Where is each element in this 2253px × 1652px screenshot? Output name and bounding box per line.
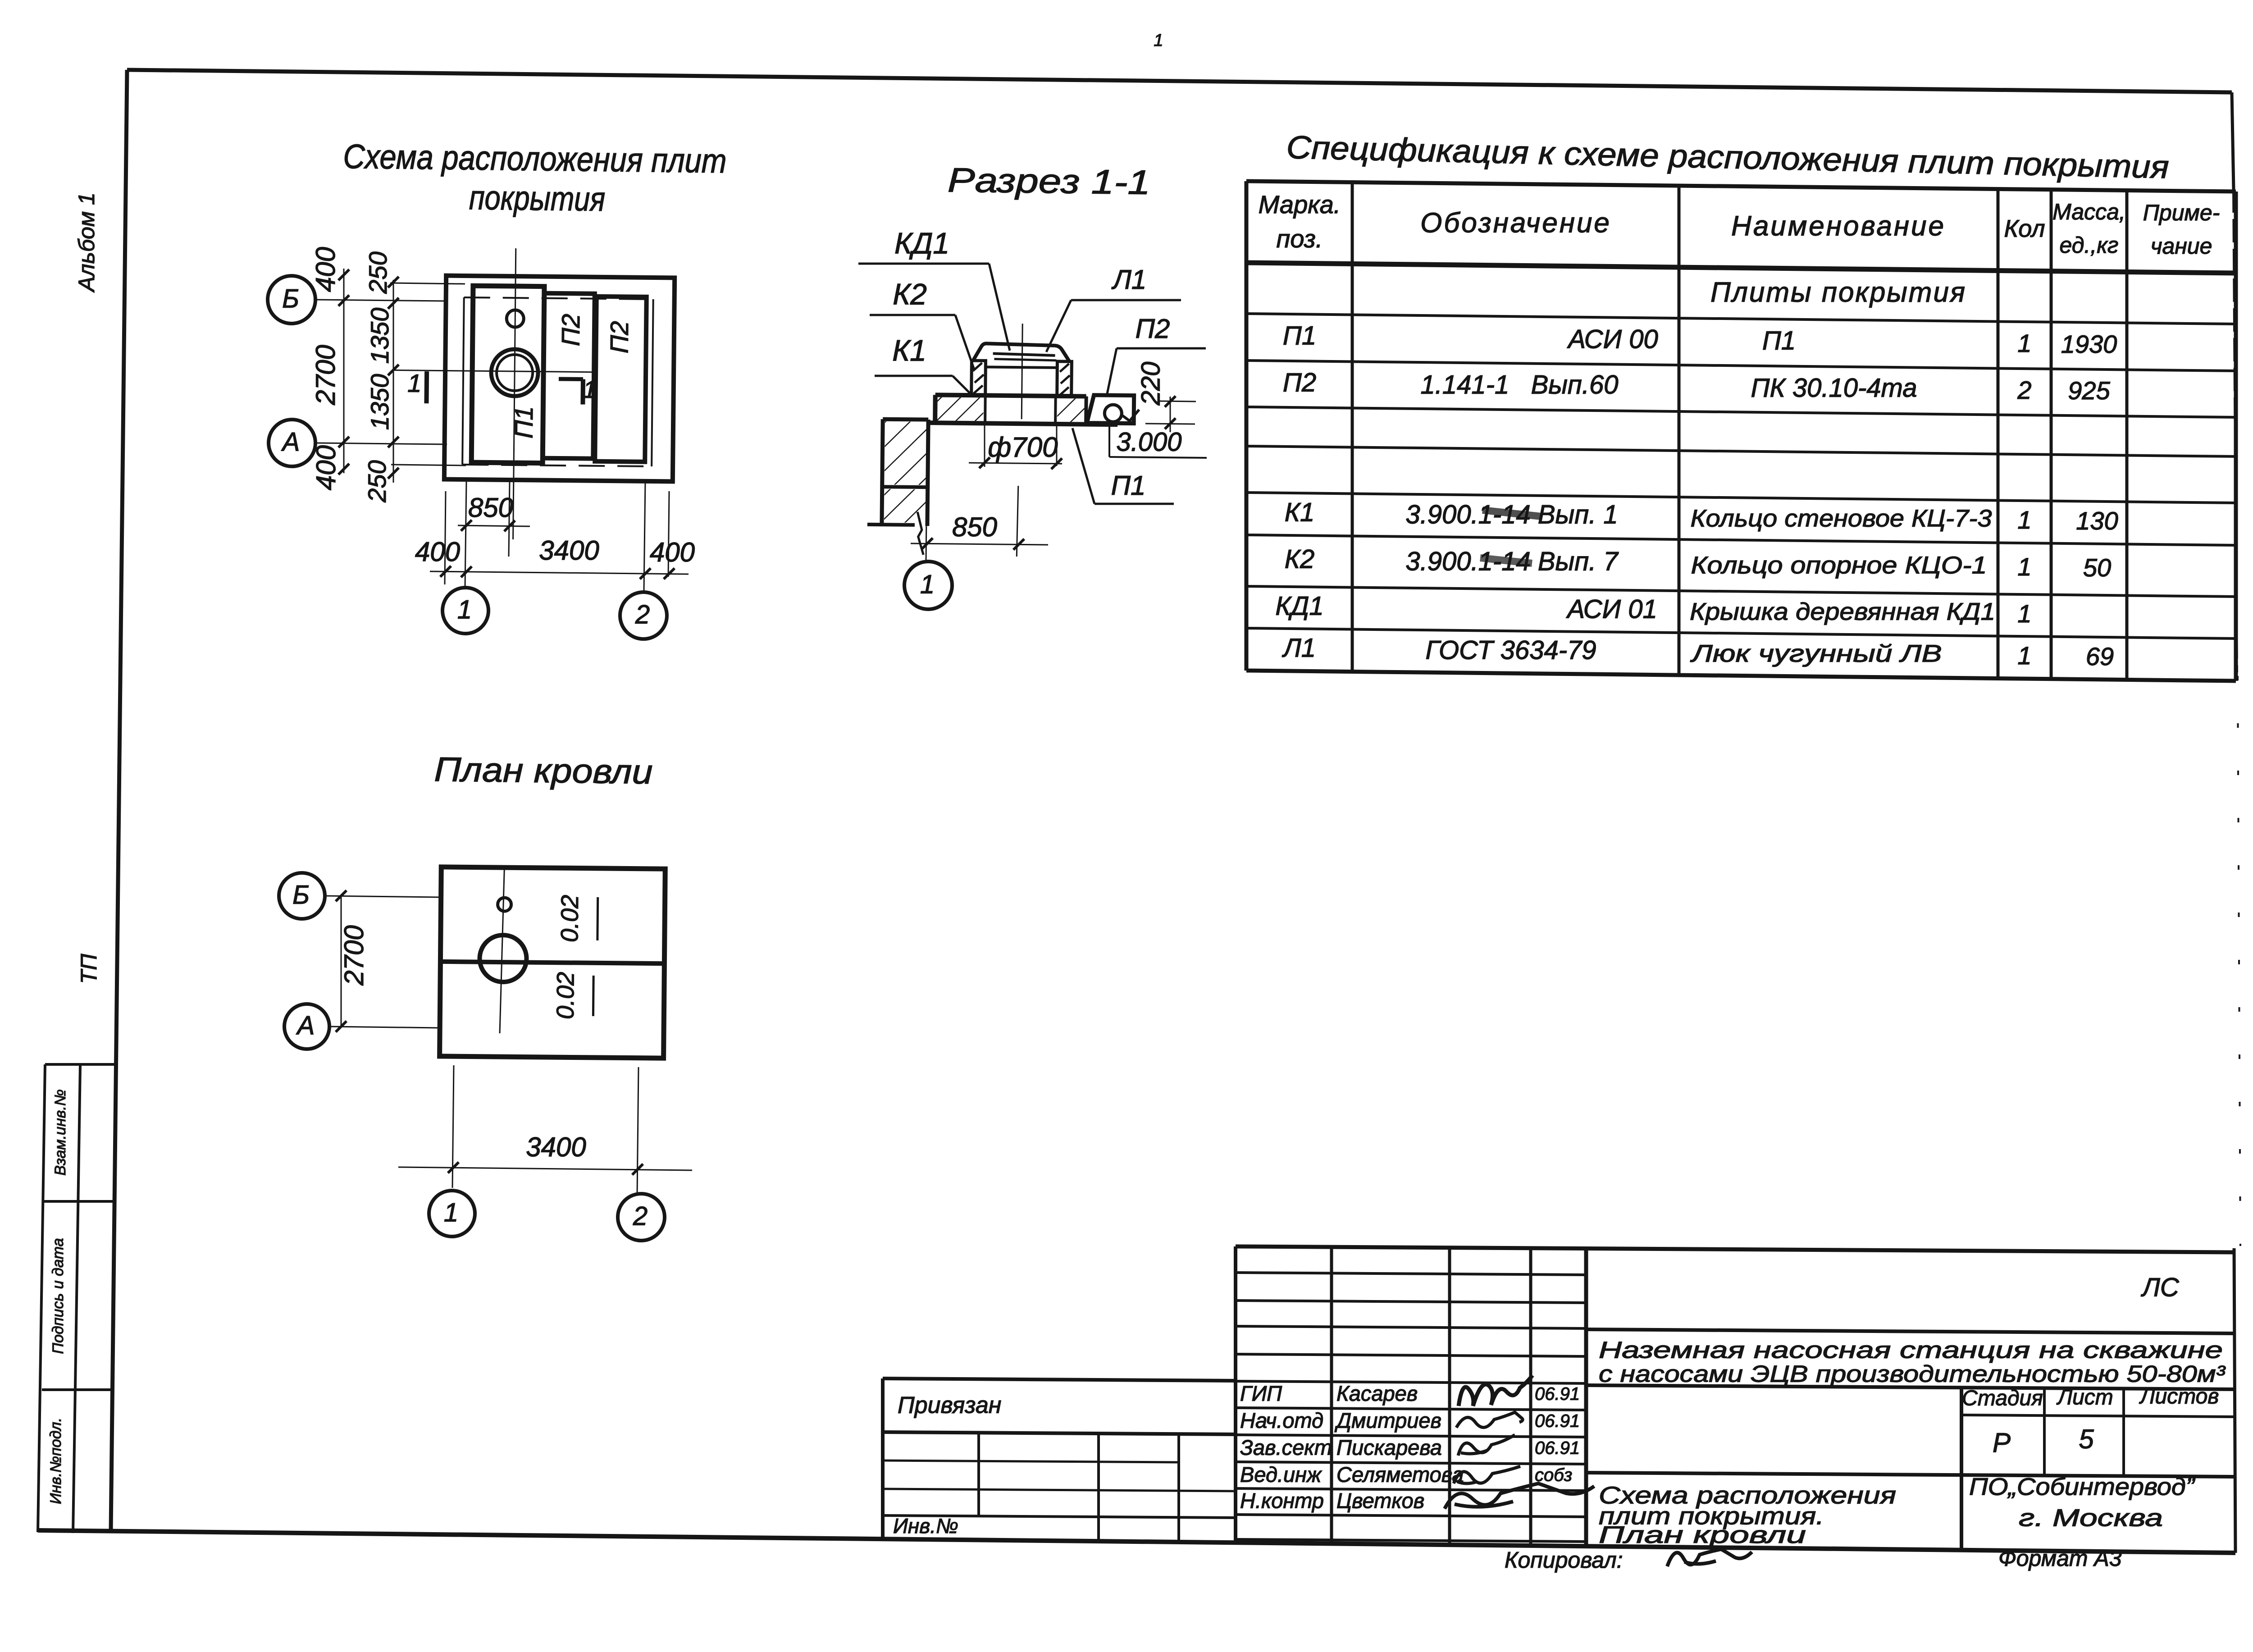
svg-text:Пискарева: Пискарева xyxy=(1336,1435,1442,1459)
svg-text:Марка.: Марка. xyxy=(1259,190,1341,219)
svg-text:Схема расположения плит: Схема расположения плит xyxy=(343,137,727,180)
svg-text:3400: 3400 xyxy=(526,1132,586,1162)
title block horizontal lines (right part) xyxy=(1586,1329,2235,1333)
svg-text:0.02: 0.02 xyxy=(556,895,584,943)
svg-text:П2: П2 xyxy=(1136,314,1170,344)
svg-text:ГОСТ 3634-79: ГОСТ 3634-79 xyxy=(1425,635,1596,665)
svg-text:400: 400 xyxy=(311,445,341,490)
svg-text:ПО„Собинтервод”: ПО„Собинтервод” xyxy=(1969,1473,2195,1500)
svg-text:2: 2 xyxy=(633,1201,648,1231)
svg-text:Приме-: Приме- xyxy=(2143,200,2220,225)
svg-text:2700: 2700 xyxy=(310,345,341,405)
section cut mark 1 (left) xyxy=(424,371,429,403)
svg-text:Формат А3: Формат А3 xyxy=(1998,1546,2122,1571)
svg-text:Л1: Л1 xyxy=(1282,633,1316,662)
slab П2 (second) xyxy=(595,297,647,462)
svg-text:Люк чугунный ЛВ: Люк чугунный ЛВ xyxy=(1690,640,1942,667)
svg-text:Альбом 1: Альбом 1 xyxy=(74,192,99,293)
svg-text:Наименование: Наименование xyxy=(1731,210,1946,242)
svg-text:1: 1 xyxy=(2017,641,2031,670)
svg-text:1: 1 xyxy=(407,369,422,397)
roof ridge line xyxy=(440,962,664,963)
svg-text:850: 850 xyxy=(468,493,513,523)
svg-text:1: 1 xyxy=(457,595,472,624)
svg-text:69: 69 xyxy=(2086,642,2114,671)
fold mark dashed line xyxy=(2238,676,2240,1246)
grid line 2 xyxy=(644,481,645,591)
svg-text:К2: К2 xyxy=(1285,544,1314,574)
dim 220 xyxy=(1158,401,1196,402)
signatures (scribbles) xyxy=(1459,1375,1532,1406)
svg-text:50: 50 xyxy=(2083,553,2111,582)
svg-text:покрытия: покрытия xyxy=(469,178,606,219)
svg-text:0.02: 0.02 xyxy=(552,972,579,1019)
svg-text:ГИП: ГИП xyxy=(1240,1381,1282,1405)
wooden cover КД1 xyxy=(973,343,1069,361)
svg-text:1: 1 xyxy=(583,376,597,403)
svg-text:2: 2 xyxy=(635,600,650,629)
svg-text:3.000: 3.000 xyxy=(1116,427,1181,456)
svg-text:План кровли: План кровли xyxy=(1599,1522,1806,1548)
grid circle А (roof) xyxy=(284,1004,329,1049)
title block top edge xyxy=(1236,1246,2235,1252)
hatch circle on roof xyxy=(479,935,527,982)
svg-text:1: 1 xyxy=(2017,329,2031,357)
svg-text:850: 850 xyxy=(952,512,997,542)
svg-text:400: 400 xyxy=(650,537,695,567)
grid circle 1 (section) xyxy=(904,561,952,609)
svg-text:1: 1 xyxy=(2017,599,2031,628)
svg-text:КД1: КД1 xyxy=(894,226,949,260)
slab П1 xyxy=(471,286,544,463)
title block verticals (right part) xyxy=(1584,1248,1588,1547)
lid Л1 lines xyxy=(993,354,1055,356)
svg-text:2700: 2700 xyxy=(339,925,369,986)
svg-text:Цветков: Цветков xyxy=(1336,1488,1424,1512)
svg-text:ТП: ТП xyxy=(76,954,101,984)
smudge over К2 обозначение xyxy=(1480,558,1532,563)
ring inner top edge К2 xyxy=(985,367,1057,368)
svg-text:400: 400 xyxy=(415,537,460,567)
svg-text:Масса,: Масса, xyxy=(2052,199,2125,224)
svg-text:130: 130 xyxy=(2076,507,2118,535)
slab П1 band in section xyxy=(935,395,1086,396)
axis lines xyxy=(325,896,440,897)
ring К1 walls (hatched) xyxy=(971,361,986,396)
svg-text:Привязан: Привязан xyxy=(898,1392,1001,1419)
plan inner opening edge (hidden, dashed) xyxy=(464,297,653,299)
roof rectangle xyxy=(440,867,666,1058)
svg-text:1: 1 xyxy=(1154,31,1163,50)
svg-text:Б: Б xyxy=(282,284,299,313)
svg-text:ЛС: ЛС xyxy=(2140,1273,2180,1302)
svg-text:ф700: ф700 xyxy=(988,432,1058,463)
basement wall in section xyxy=(883,417,928,422)
svg-text:ед.,кг: ед.,кг xyxy=(2060,233,2119,258)
svg-text:чание: чание xyxy=(2151,233,2212,259)
svg-text:3400: 3400 xyxy=(539,535,599,566)
svg-text:АСИ 01: АСИ 01 xyxy=(1566,594,1657,624)
slab П2 end block in section xyxy=(1087,395,1134,424)
vertical dim line 2700 (roof) xyxy=(341,896,342,1027)
svg-text:Лист: Лист xyxy=(2056,1386,2113,1410)
axis line А xyxy=(316,443,447,444)
svg-text:П2: П2 xyxy=(605,321,634,353)
svg-text:06.91: 06.91 xyxy=(1535,1384,1580,1404)
svg-text:925: 925 xyxy=(2068,376,2110,405)
svg-text:К1: К1 xyxy=(892,333,926,367)
svg-text:с насосами ЭЦВ производительно: с насосами ЭЦВ производительностью 50-80… xyxy=(1599,1361,2226,1387)
svg-text:Инв.№: Инв.№ xyxy=(893,1514,958,1538)
grid circle 2 xyxy=(620,592,667,639)
svg-text:400: 400 xyxy=(310,247,341,292)
привязан block xyxy=(883,1378,1236,1381)
centre axis of shaft xyxy=(1022,324,1022,419)
hatch opening circles xyxy=(491,349,538,397)
vent circle on roof xyxy=(497,898,511,911)
svg-text:Кол: Кол xyxy=(2004,215,2045,242)
margin stamp table xyxy=(38,1064,45,1532)
specification table grid xyxy=(1246,181,2236,192)
svg-text:АСИ 00: АСИ 00 xyxy=(1567,324,1658,354)
svg-text:Нач.отд: Нач.отд xyxy=(1240,1408,1323,1432)
svg-text:Кольцо опорное КЦО-1: Кольцо опорное КЦО-1 xyxy=(1691,552,1987,579)
svg-text:1350: 1350 xyxy=(365,374,394,430)
svg-text:Касарев: Касарев xyxy=(1336,1381,1418,1405)
svg-text:Селяметова: Селяметова xyxy=(1336,1462,1464,1486)
svg-text:1350: 1350 xyxy=(365,308,394,364)
grid circle Б (roof) xyxy=(279,873,325,919)
svg-text:06.91: 06.91 xyxy=(1535,1438,1580,1458)
svg-text:поз.: поз. xyxy=(1277,224,1323,253)
svg-text:220: 220 xyxy=(1136,362,1165,406)
grid line 1 xyxy=(465,481,466,588)
level mark 3.000 xyxy=(1121,410,1139,421)
svg-text:Наземная насосная станция на с: Наземная насосная станция на скважине xyxy=(1599,1337,2223,1364)
dim line 3400 (roof) xyxy=(398,1167,692,1170)
smudge over К1 обозначение xyxy=(1482,510,1541,516)
svg-text:Кольцо стеновое КЦ-7-3: Кольцо стеновое КЦ-7-3 xyxy=(1691,505,1992,532)
svg-text:Крышка деревянная КД1: Крышка деревянная КД1 xyxy=(1690,598,1995,625)
vertical axis line xyxy=(513,248,516,539)
svg-text:ПК 30.10-4та: ПК 30.10-4та xyxy=(1751,373,1917,402)
svg-text:Взам.инв.№: Взам.инв.№ xyxy=(52,1089,69,1175)
specification title xyxy=(1286,129,2170,185)
svg-text:П1: П1 xyxy=(1111,470,1146,501)
svg-text:КД1: КД1 xyxy=(1275,591,1323,621)
svg-text:г. Москва: г. Москва xyxy=(2019,1504,2163,1531)
section cut mark 1 (right) xyxy=(559,377,583,381)
dim line 850 xyxy=(458,525,530,526)
svg-text:Подпись и дата: Подпись и дата xyxy=(50,1238,67,1354)
signature table verticals xyxy=(1234,1246,1237,1545)
svg-text:А: А xyxy=(296,1011,315,1040)
svg-text:250: 250 xyxy=(364,251,392,294)
svg-text:Листов: Листов xyxy=(2139,1385,2219,1409)
dim phi700 xyxy=(984,424,985,467)
svg-text:П1: П1 xyxy=(1283,321,1316,350)
svg-text:А: А xyxy=(281,427,300,456)
horizontal axis line xyxy=(392,370,593,372)
svg-text:Р: Р xyxy=(1993,1428,2011,1458)
grid circle 1 (roof) xyxy=(429,1191,475,1237)
signature table rows xyxy=(1236,1273,1586,1275)
svg-text:Л1: Л1 xyxy=(1111,265,1147,295)
hatch centre extension xyxy=(509,482,510,557)
vertical dimension line 250/1350/1350/250 xyxy=(393,280,394,483)
svg-text:Обозначение: Обозначение xyxy=(1420,207,1611,238)
slab П2 (first) xyxy=(543,293,595,459)
svg-text:П2: П2 xyxy=(556,314,585,346)
svg-text:Разрез 1-1: Разрез 1-1 xyxy=(948,161,1151,201)
svg-text:1.141-1 Вып.60: 1.141-1 Вып.60 xyxy=(1421,370,1619,399)
svg-text:Зав.сект: Зав.сект xyxy=(1240,1435,1332,1459)
svg-text:2: 2 xyxy=(2017,376,2031,404)
svg-text:Копировал:: Копировал: xyxy=(1505,1547,1623,1573)
vent circle xyxy=(506,310,524,327)
svg-text:П1: П1 xyxy=(1762,326,1796,355)
svg-text:К1: К1 xyxy=(1285,497,1314,527)
svg-text:Вед.инж: Вед.инж xyxy=(1240,1462,1323,1486)
grid circle А xyxy=(269,420,315,466)
extension line left edge xyxy=(445,491,446,584)
lifting hole in П2 xyxy=(1104,405,1122,422)
svg-text:Б: Б xyxy=(292,880,310,909)
grid circle Б xyxy=(268,276,315,324)
svg-text:250: 250 xyxy=(363,460,391,502)
extension lines below roof xyxy=(452,1065,454,1188)
dim 850 (section) xyxy=(926,424,927,562)
svg-text:1930: 1930 xyxy=(2061,330,2117,358)
svg-text:П2: П2 xyxy=(1283,368,1316,397)
svg-text:1: 1 xyxy=(2017,552,2031,581)
svg-text:Инв.№подл.: Инв.№подл. xyxy=(47,1418,64,1504)
extension line right edge xyxy=(668,491,669,577)
sheet frame border xyxy=(127,70,2232,92)
svg-text:Стадия: Стадия xyxy=(1962,1387,2043,1410)
svg-text:К2: К2 xyxy=(893,277,927,310)
main dim line 400/3400/400 xyxy=(430,571,689,574)
grid circle 2 (roof) xyxy=(618,1194,665,1241)
grid circle 1 xyxy=(442,588,488,634)
svg-text:1: 1 xyxy=(2017,506,2031,534)
axis line Б xyxy=(315,300,447,301)
svg-text:5: 5 xyxy=(2079,1424,2094,1454)
extension lines xyxy=(390,283,465,284)
svg-text:1: 1 xyxy=(444,1198,458,1227)
break line at wall bottom xyxy=(917,512,924,555)
roof centre line xyxy=(500,869,504,1033)
vertical dimension line 400/2700/400 xyxy=(343,269,345,473)
svg-text:собз: собз xyxy=(1535,1465,1572,1485)
svg-text:Плиты покрытия: Плиты покрытия xyxy=(1710,277,1966,308)
svg-text:06.91: 06.91 xyxy=(1535,1411,1580,1431)
svg-text:Дмитриев: Дмитриев xyxy=(1334,1408,1441,1432)
svg-text:Н.контр: Н.контр xyxy=(1240,1488,1324,1512)
svg-text:План кровли: План кровли xyxy=(434,750,653,791)
plan outer wall rectangle xyxy=(444,276,675,482)
svg-text:1: 1 xyxy=(920,570,935,599)
